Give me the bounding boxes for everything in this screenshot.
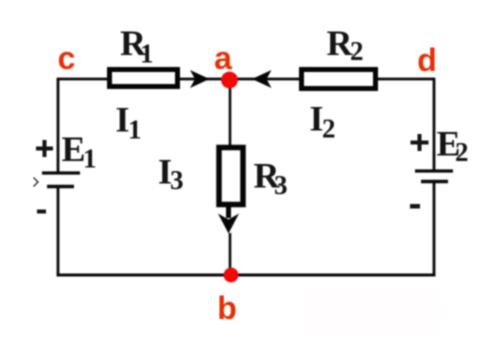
svg-text:b: b bbox=[217, 290, 237, 326]
svg-text:2: 2 bbox=[322, 114, 336, 144]
svg-text:2: 2 bbox=[350, 36, 364, 66]
svg-text:1: 1 bbox=[128, 115, 142, 145]
svg-text:E: E bbox=[62, 129, 86, 169]
svg-text:1: 1 bbox=[83, 144, 97, 174]
svg-text:a: a bbox=[214, 40, 232, 76]
svg-text:3: 3 bbox=[274, 170, 288, 200]
svg-text:d: d bbox=[417, 42, 437, 78]
svg-text:2: 2 bbox=[455, 137, 469, 167]
svg-text:3: 3 bbox=[170, 165, 184, 195]
svg-text:c: c bbox=[58, 40, 76, 76]
svg-text:1: 1 bbox=[140, 39, 154, 69]
